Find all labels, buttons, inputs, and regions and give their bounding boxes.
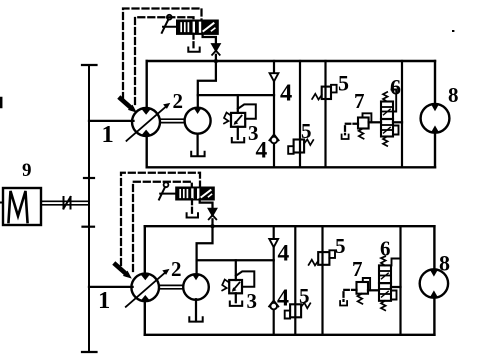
valve V2 drain tank [187,213,198,217]
valve 6 lower box [381,119,393,137]
valve 6 spring bottom [383,137,388,147]
relief valve 7 box [358,118,369,129]
svg-text:8: 8 [448,83,459,107]
wire valve V1 outlet [203,34,216,44]
valve V1 drain dashed [192,34,194,48]
divider line b B [321,226,323,335]
divider line c [401,61,403,167]
valve V1 body [177,21,217,34]
valve V2 drain dashed [191,199,193,214]
valve V2 lever arm [159,187,165,199]
divider line a [299,61,301,167]
svg-text:5: 5 [301,119,312,143]
valve V2 body [177,188,214,199]
valve V2 lever knob [164,182,169,187]
svg-text:4: 4 [277,286,289,312]
valve 5b loop [288,146,293,154]
svg-text:8: 8 [439,251,450,276]
wire valve junction down to pumps B [197,226,213,274]
valve V2 right box arrow slits [202,190,211,197]
valve 6 connector top [392,90,397,112]
motor M9 box [3,188,41,225]
edge artifact mark [0,98,2,107]
svg-text:7: 7 [352,257,363,281]
valve V2 left box slits [179,190,181,198]
motor 8 triangle top [431,104,439,111]
check valve 4 ball [269,134,278,140]
check valve 4 ball B [269,301,278,307]
divider line c B [399,226,401,335]
relief valve 3 spring [224,113,231,124]
pump P1 triangle top [141,109,151,115]
valve 6 lower loop B [391,291,397,300]
scan speck [452,30,454,32]
svg-text:5: 5 [335,234,346,258]
svg-text:4: 4 [280,80,292,107]
pump P2 variable (big circle) [131,274,159,302]
wire valve V2 outlet [200,199,213,208]
pilot dashed line inner B [133,182,192,271]
valve 6 spring top [383,92,388,102]
frame rect top circuit [147,60,435,62]
charge pump tank [191,152,204,156]
shaft double line P2 to charge pump B [159,284,184,286]
valve V1 lever knob [167,15,172,20]
valve 5b box B [290,304,301,317]
svg-text:1: 1 [98,287,110,314]
valve 6 upper box hatch B [381,270,389,272]
valve 6 spring bottom B [381,301,386,311]
motor 8 circle [421,104,450,133]
manifold tick upper [84,177,94,179]
pump P2 control thick arrow [116,265,127,274]
valve 5b box [294,140,305,153]
svg-text:2: 2 [171,257,182,281]
pump P2 variable arrow [126,272,166,307]
motor 8 triangle bottom B [430,290,438,297]
valve V1 left box slits [180,23,182,31]
manifold bottom cap [82,351,97,353]
wire pump outlet to check 4 B [197,259,274,261]
svg-text:3: 3 [247,289,258,313]
check line vertical 4 [273,61,275,167]
valve 6 lower box hatch B [381,288,389,290]
svg-text:9: 9 [22,160,32,181]
relief valve 3 tank line B [235,293,237,302]
svg-text:5: 5 [299,284,310,308]
charge pump triangle [194,108,202,114]
wire check to frame [215,55,217,61]
pump P2 triangle top [141,274,151,280]
wire valve junction down to pumps [198,61,216,108]
check line vertical 4 B [273,226,275,335]
svg-text:5: 5 [338,71,349,96]
valve 5a box B [318,252,329,265]
pilot dashed line outer B [121,173,200,265]
valve 5b spring [304,139,313,145]
valve 5a loop B [329,250,335,258]
divider line b [324,61,326,167]
shaft double line P1 to charge pump [160,118,186,120]
valve 6 upper box hatch [383,106,391,108]
valve 6 stub to divider B [391,286,401,288]
svg-text:4: 4 [278,241,290,267]
pump P1 variable arrow [127,106,167,141]
node junction dot B [211,225,214,228]
svg-text:1: 1 [102,121,114,148]
charge pump tank line [196,134,198,156]
valve V1 drain tank [188,48,199,52]
node junction dot [214,59,217,62]
valve 6 lower loop [393,126,399,135]
valve 6 upper box [381,102,393,120]
valve 6 spring top B [381,256,386,265]
valve 6 connector top B [392,259,401,266]
valve 5a box [322,87,331,99]
motor 8 triangle top B [430,270,438,277]
motor 8 triangle bottom [431,125,439,132]
wire 7 to 6 B [368,289,379,291]
relief valve 3 pilot loop B [236,271,255,286]
pilot dashed line inner [135,17,194,104]
relief valve 3 wire B [235,260,237,280]
shaft double line motor to manifold [41,200,89,202]
shaft coupling symbol [63,197,65,209]
valve 6 stub to divider [393,121,402,123]
svg-text:4: 4 [256,138,268,164]
relief valve 7 drain tank [342,135,349,140]
pump P1 control thick arrow [121,99,132,108]
relief valve 7 pilot loop B [363,278,370,290]
relief valve 3 tank line [237,127,239,139]
relief valve 7 spring [359,129,364,139]
manifold tick lower [83,226,95,228]
relief valve 7 pilot loop [363,113,372,122]
charge pump tank B [189,317,202,321]
relief valve 7 drain dashed B [344,290,357,301]
relief valve 7 drain tank B [340,301,347,306]
valve 6 lower box hatch [383,124,391,126]
divider line a B [294,226,296,335]
frame rect bottom circuit [145,225,435,227]
svg-text:2: 2 [173,89,184,113]
valve V1 right box arrow slits [204,23,214,31]
relief valve 3 tank [232,138,244,142]
pump P1 variable (big circle) [132,108,160,136]
relief valve 3 wire from outlet line [237,95,239,113]
valve 6 lower box B [379,283,391,301]
wire check to frame B [211,219,213,226]
relief valve 3 box [231,113,245,127]
relief valve 3 arrow B [233,283,239,290]
relief valve 3 tank B [230,302,242,306]
wire pump outlet to check 4 [198,94,274,96]
motor 8 circle B [420,269,448,297]
wire 7 to 6 [369,121,381,123]
check valve 4 triangle [270,73,279,81]
valve 6 upper box B [379,265,391,283]
valve 5a loop [331,85,337,93]
svg-text:6: 6 [380,237,391,261]
relief valve 3 spring B [222,280,229,291]
valve V2 centre port gaps [191,190,193,198]
check valve 4 triangle B [269,239,278,247]
manifold top cap [82,64,97,66]
relief valve 7 box B [357,282,369,294]
relief valve 7 spring B [357,294,362,304]
motor left stub [0,202,3,204]
pump P2 triangle bottom [141,295,150,301]
charge pump circle B [183,274,209,300]
pilot dashed line outer (valve V1 to pump) [123,9,202,100]
relief valve 3 pilot loop [238,104,256,118]
wire manifold to pump P1 [89,120,134,122]
relief valve 3 box B [229,280,242,293]
motor M9 letter [9,191,28,222]
relief valve 3 arrow [235,116,241,123]
charge pump circle [185,108,211,134]
valve 5a spring [312,94,322,100]
wire manifold to pump P2 [89,286,133,288]
valve 5b spring B [301,303,310,309]
valve 5a spring B [309,260,319,266]
relief valve 7 drain dashed [345,124,358,135]
charge pump tank line B [195,299,197,321]
valve 5b loop B [285,311,290,319]
reservoir manifold vertical line [88,65,90,352]
valve V1 centre port gaps [193,23,195,32]
charge pump triangle B [192,274,200,280]
check arrow under valve V2 [209,209,216,215]
check arrow under valve V1 [212,44,219,50]
pump P1 triangle bottom [141,130,150,136]
svg-text:6: 6 [390,75,401,100]
svg-text:7: 7 [354,89,365,113]
valve V1 lever arm [162,20,169,33]
